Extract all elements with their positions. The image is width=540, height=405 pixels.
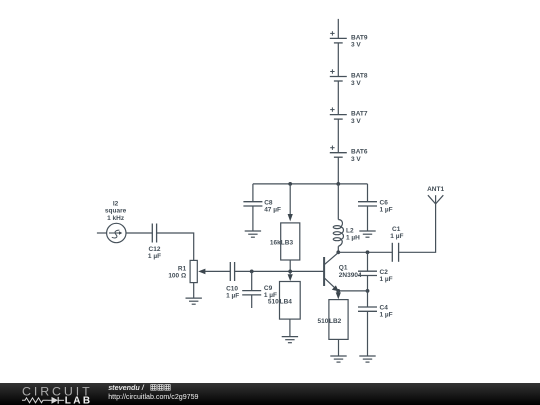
wire LB4 to ground (289, 319, 291, 336)
wire rail down to LB3 arrow (288, 184, 293, 222)
capacitor C6 (358, 202, 377, 206)
label BAT8 (351, 72, 368, 86)
label C6 (380, 199, 393, 213)
label C4 (380, 305, 393, 319)
ground below C8 (245, 231, 261, 237)
svg-text:ANT1: ANT1 (427, 186, 444, 193)
label C2 (380, 269, 393, 283)
svg-text:square: square (105, 208, 127, 215)
svg-text:stevendu /: stevendu / (108, 383, 145, 392)
wire C12 to R1 (157, 233, 194, 260)
label C8 (264, 199, 281, 213)
capacitor C12 (152, 224, 156, 243)
battery BAT7 (330, 107, 347, 119)
ground below C6 (359, 231, 375, 237)
wire C4 top (367, 291, 369, 307)
svg-text:1 kHz: 1 kHz (107, 215, 125, 222)
svg-text:C12: C12 (149, 246, 161, 253)
svg-text:3 V: 3 V (351, 80, 361, 87)
node C2 top junction (366, 250, 370, 254)
node C9 junction (250, 270, 254, 274)
label C12 (148, 246, 161, 260)
svg-text:C2: C2 (380, 269, 389, 276)
node LB4 junction (288, 270, 292, 274)
wire top rail (253, 183, 368, 185)
capacitor C4 (358, 307, 377, 311)
capacitor C2 (358, 271, 377, 275)
wire BAT6 to top rail (337, 157, 339, 184)
label I2 (105, 201, 127, 222)
svg-text:47 µF: 47 µF (264, 206, 281, 213)
wire BAT8 to BAT7 (337, 81, 339, 115)
transistor Q1 (324, 253, 339, 292)
battery BAT6 (330, 146, 347, 158)
svg-text:LB4: LB4 (280, 298, 293, 305)
logo diode (48, 397, 64, 404)
wire C8 to ground (252, 206, 254, 231)
label LB4 name (280, 298, 293, 305)
capacitor C1 (392, 243, 398, 262)
svg-text:1 µF: 1 µF (380, 206, 393, 213)
footer bar (0, 383, 540, 405)
label R1 (168, 265, 186, 279)
svg-text:BAT6: BAT6 (351, 149, 368, 156)
wire BAT9 to BAT8 (337, 43, 339, 77)
wire emitter to LB2 arrow (336, 291, 341, 299)
wire C1 to antenna (399, 204, 436, 252)
logo LAB text (65, 396, 93, 405)
label LB2 value 510 (318, 318, 329, 325)
wire LB2 to ground (338, 339, 340, 356)
lamp LB4 (280, 282, 301, 320)
wire C6 to ground (367, 206, 369, 231)
potentiometer R1 (190, 260, 197, 282)
wire C4 to ground (367, 311, 369, 356)
label C1 (390, 226, 403, 240)
node rail-battery junction (336, 182, 340, 186)
lamp LB3 (281, 223, 300, 260)
current source I2 (97, 223, 152, 242)
wire C2 to emitter node (367, 276, 369, 291)
wire base (235, 270, 325, 272)
wire LB3 to base wire (289, 260, 291, 271)
svg-text:1 µF: 1 µF (148, 253, 161, 260)
label LB2 name (329, 318, 342, 325)
svg-text:1 µF: 1 µF (390, 233, 403, 240)
svg-text:LAB: LAB (65, 396, 93, 405)
svg-text:BAT7: BAT7 (351, 111, 368, 118)
wire emitter horizontal (338, 290, 367, 292)
wire C9 top (251, 271, 253, 290)
svg-text:http://circuitlab.com/c2g9759: http://circuitlab.com/c2g9759 (108, 393, 198, 401)
svg-text:16k: 16k (270, 239, 281, 246)
svg-text:C9: C9 (264, 285, 273, 292)
capacitor C10 (230, 262, 234, 281)
svg-text:510: 510 (268, 298, 279, 305)
capacitor C9 (242, 291, 261, 295)
svg-text:I2: I2 (113, 201, 119, 208)
battery BAT9 (330, 31, 347, 43)
wire BAT7 to BAT6 (337, 119, 339, 153)
node emitter junction (336, 289, 340, 293)
label LB3 value 16k (270, 239, 281, 246)
svg-text:BAT8: BAT8 (351, 72, 368, 79)
wire R1 to ground (193, 283, 195, 299)
svg-text:3 V: 3 V (351, 42, 361, 49)
svg-text:3 V: 3 V (351, 156, 361, 163)
label Q1 (339, 265, 362, 279)
wire LB4 arrow (288, 271, 293, 281)
wire rail down to C8 (252, 184, 254, 202)
svg-text:1 µH: 1 µH (346, 234, 360, 241)
logo resistor zigzag (22, 398, 48, 403)
svg-text:C4: C4 (380, 305, 389, 312)
label C9 (264, 285, 277, 299)
node collector junction (336, 250, 340, 254)
wire C2 top (367, 252, 369, 271)
label C10 (226, 286, 239, 300)
footer url (108, 393, 198, 401)
ground below R1 (186, 298, 202, 304)
svg-text:C10: C10 (226, 286, 238, 293)
svg-text:1 µF: 1 µF (380, 312, 393, 319)
svg-text:C1: C1 (392, 226, 401, 233)
svg-text:C6: C6 (380, 199, 389, 206)
lamp LB2 (329, 300, 348, 340)
label BAT7 (351, 111, 368, 125)
ground below C4 (359, 356, 375, 362)
svg-text:L2: L2 (346, 227, 354, 234)
wire stub above BAT9 (337, 19, 339, 39)
footer CJK title glyphs (151, 385, 170, 391)
svg-text:3 V: 3 V (351, 118, 361, 125)
label LB3 name (281, 239, 294, 246)
svg-text:100 Ω: 100 Ω (168, 272, 186, 279)
antenna ANT1 (428, 195, 443, 204)
wire rail down to C6 (367, 184, 369, 202)
label BAT9 (351, 34, 368, 48)
svg-text:LB2: LB2 (329, 318, 342, 325)
svg-text:C8: C8 (264, 199, 273, 206)
label BAT6 (351, 149, 368, 163)
svg-text:R1: R1 (178, 265, 187, 272)
svg-text:LB3: LB3 (281, 239, 294, 246)
label LB4 value 510 (268, 298, 279, 305)
label ANT1 (427, 186, 444, 193)
footer username (108, 383, 145, 392)
battery BAT8 (330, 69, 347, 81)
node emitter-right junction (366, 289, 370, 293)
svg-text:BAT9: BAT9 (351, 34, 368, 41)
svg-text:510: 510 (318, 318, 329, 325)
wiper arrow of R1 (198, 269, 230, 275)
svg-text:Q1: Q1 (339, 265, 348, 272)
label L2 (346, 227, 360, 241)
wire C9 stub (251, 295, 253, 308)
ground below LB4 (282, 337, 298, 343)
ground below LB2 (330, 356, 346, 362)
svg-text:1 µF: 1 µF (380, 276, 393, 283)
wire collector to C1 (338, 251, 392, 253)
node rail-LB3 junction (288, 182, 292, 186)
svg-text:1 µF: 1 µF (226, 293, 239, 300)
inductor L2 (333, 184, 343, 252)
logo CIRCUIT text (22, 385, 93, 399)
capacitor C8 (243, 202, 262, 206)
